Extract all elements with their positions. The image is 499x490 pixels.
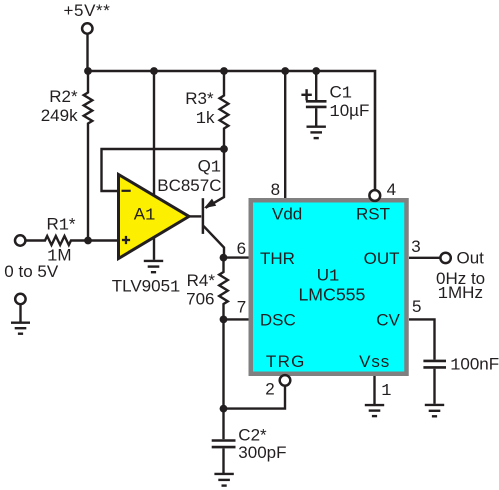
wire top supply bus: [88, 71, 375, 191]
wire CV pin 5: [409, 319, 435, 359]
node dot C2 TRG: [220, 405, 228, 413]
svg-text:LMC555: LMC555: [298, 284, 365, 304]
capacitor C2: [212, 409, 236, 473]
svg-text:TRG: TRG: [266, 352, 306, 371]
node dot DSC: [220, 316, 228, 324]
resistor R2: [84, 71, 93, 241]
svg-text:CV: CV: [376, 311, 400, 330]
input terminal: [15, 235, 25, 245]
node dot bus Vdd: [281, 67, 289, 75]
input ground terminal: [15, 294, 25, 304]
svg-text:2: 2: [265, 380, 274, 399]
capacitor C3 100nF: [423, 361, 446, 404]
wire TRG pin 2: [224, 386, 286, 409]
svg-text:4: 4: [387, 180, 396, 199]
svg-text:U1: U1: [317, 266, 339, 287]
C1 plus sign: [301, 89, 311, 100]
wire +5V stem: [86, 35, 88, 72]
wire ground terminal stem: [19, 305, 21, 323]
node dot R1 R2: [84, 237, 92, 245]
svg-text:OUT: OUT: [364, 249, 400, 268]
node dot THR: [220, 254, 228, 262]
svg-text:1: 1: [381, 382, 391, 401]
wire feedback from inverting input: [102, 149, 225, 191]
op-amp A1 triangle: [119, 175, 190, 259]
node dot R3 emitter feedback: [220, 145, 228, 153]
svg-text:C2*: C2*: [238, 426, 267, 445]
svg-text:10µF: 10µF: [330, 101, 370, 122]
svg-text:6: 6: [237, 239, 246, 258]
ground input: [11, 323, 30, 334]
svg-text:Vss: Vss: [359, 352, 390, 371]
svg-text:RST: RST: [356, 204, 390, 223]
ground 100nF: [425, 405, 444, 416]
wire DSC pin 7: [224, 318, 252, 320]
svg-text:0 to 5V: 0 to 5V: [4, 262, 59, 281]
svg-text:706: 706: [186, 290, 214, 309]
ground Vss: [365, 405, 384, 416]
svg-text:1MHz: 1MHz: [438, 283, 483, 304]
node dot bus C1: [312, 67, 320, 75]
svg-text:THR: THR: [260, 249, 295, 268]
wire op-amp V- stem: [153, 238, 155, 260]
IC U1 LMC555 body: [251, 200, 407, 374]
svg-text:A1: A1: [134, 204, 156, 225]
svg-text:Vdd: Vdd: [272, 204, 302, 223]
ground C1: [307, 127, 326, 138]
svg-text:R2*: R2*: [49, 87, 78, 106]
svg-text:5: 5: [412, 297, 421, 316]
svg-text:Out: Out: [457, 248, 485, 267]
node dot bus opamp supply: [150, 67, 158, 75]
svg-text:R3*: R3*: [185, 89, 214, 108]
svg-text:8: 8: [271, 180, 280, 199]
svg-text:100nF: 100nF: [450, 354, 499, 375]
resistor R4: [219, 258, 228, 320]
TRG terminal circle: [280, 375, 291, 386]
node dot bus R2: [84, 67, 92, 75]
wire DSC down to C2 node: [222, 319, 224, 408]
capacitor C1: [306, 71, 327, 126]
svg-text:1k: 1k: [196, 108, 215, 129]
svg-text:7: 7: [237, 297, 246, 316]
wire THR pin 6: [224, 256, 252, 258]
wire op-amp V+ supply: [153, 71, 155, 196]
op-amp minus sign: [122, 190, 131, 192]
transistor Q1: [203, 149, 224, 258]
svg-text:Q1: Q1: [198, 157, 221, 178]
+5V terminal: [82, 23, 92, 33]
wire op-amp output to Q1 base: [189, 215, 201, 217]
Out terminal circle: [440, 253, 450, 263]
node dot bus R3: [220, 67, 228, 75]
ground op-amp: [144, 261, 163, 272]
svg-text:R1*: R1*: [46, 214, 75, 235]
svg-text:3: 3: [411, 237, 420, 256]
wire Vdd pin 8: [284, 71, 286, 199]
wire Vss pin 1: [373, 376, 375, 404]
svg-text:DSC: DSC: [260, 311, 296, 330]
svg-text:+5V**: +5V**: [64, 1, 111, 20]
svg-text:300pF: 300pF: [238, 443, 286, 462]
resistor R1: [26, 236, 119, 245]
RST terminal circle pin 4: [369, 190, 380, 201]
svg-text:TLV9051: TLV9051: [112, 277, 180, 298]
svg-text:R4*: R4*: [187, 271, 216, 290]
op-amp plus sign: [122, 236, 130, 244]
svg-text:BC857C: BC857C: [157, 176, 221, 195]
svg-text:249k: 249k: [41, 106, 78, 125]
ground C2: [214, 474, 233, 486]
resistor R3: [220, 71, 229, 149]
wire OUT pin 3: [409, 257, 440, 259]
